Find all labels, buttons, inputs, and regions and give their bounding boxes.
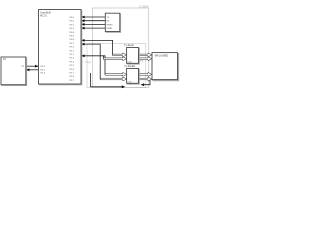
wire IC pin3 to connector J1 [81,23,105,26]
connector J1 (top right) [105,13,120,32]
svg-text:7 Seg: 7 Seg [85,61,92,64]
wire bottom serial loop [91,73,126,88]
svg-text:PWR1: PWR1 [107,28,114,30]
svg-text:PWR0: PWR0 [107,24,114,26]
IC U1 (main controller) [39,10,82,85]
wire right feedback to B [141,79,151,86]
wire junction to shift register A input 2 [104,56,127,61]
wire left box to IC RXD [26,65,39,68]
svg-text:CLK: CLK [127,62,132,64]
svg-text:TL-Serial: TL-Serial [124,44,134,47]
IC left pin labels [41,66,46,75]
group box G1 (connector section, dotted) [92,6,149,88]
svg-text:TL-Serial2: TL-Serial2 [124,65,135,68]
wire IC pin2 to connector J1 [81,19,105,22]
wire IC to shift register A input 1 [81,39,127,57]
svg-text:J1 DB9M: J1 DB9M [139,6,149,9]
left box X1 (serial device) [1,57,27,86]
wire B out 1 to display board [139,72,152,76]
wire IC pin4 to connector J1 [81,27,105,30]
wire A out 1 to display board [139,53,152,57]
group box G2 (serial section, dotted) [87,44,146,88]
wire IC to shift register B input 1 [81,54,127,76]
svg-text:MCU1: MCU1 [40,15,47,17]
wire IC to shift register B input 2 [81,43,127,81]
shift register A [124,44,139,64]
display board (right) [152,53,179,81]
svg-text:7 S: 7 S [140,60,144,63]
shift register B [124,65,139,84]
IC right pin labels [70,17,75,82]
wire B out 2 to display board [139,77,152,81]
svg-text:CLK: CLK [127,82,132,84]
wire IC pin1 to connector J1 [81,16,105,19]
wire IC TXD to left box [26,68,39,71]
svg-text:MK-16 8SEG: MK-16 8SEG [155,56,169,58]
wire A out 2 to display board [139,57,152,61]
svg-text:OpenBrd5: OpenBrd5 [40,12,51,15]
